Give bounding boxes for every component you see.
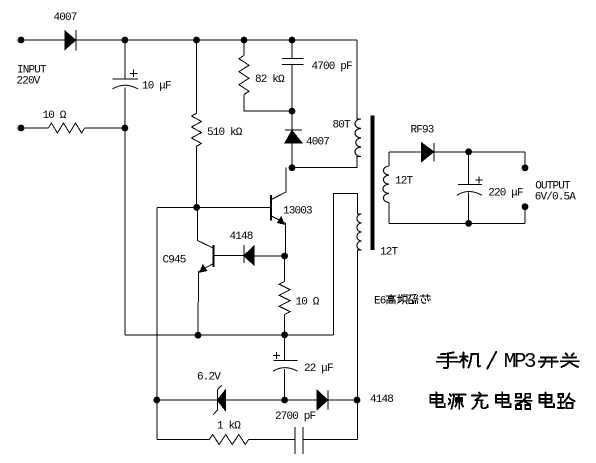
node 22uF bottom xyxy=(281,397,288,404)
svg-text:220V: 220V xyxy=(17,76,41,88)
wire 10uF branch upper xyxy=(124,40,126,79)
capacitor 4700pF xyxy=(291,40,293,59)
transformer core xyxy=(371,116,375,251)
capacitor C 10uF plates xyxy=(112,78,138,80)
node input bottom terminal xyxy=(18,125,25,132)
svg-text:RF93: RF93 xyxy=(411,125,434,137)
wire horizontal lower-left rail y=335 xyxy=(125,334,334,336)
diode 4007 (vertical) xyxy=(285,129,302,131)
text CJK lu xyxy=(558,394,575,409)
text CJK yuan xyxy=(449,394,466,409)
zener diode 6.2V xyxy=(213,385,221,414)
text CJK ci_small xyxy=(409,295,419,304)
Chinese title and labels drawn as strokes xyxy=(386,294,578,409)
wire bottom loop xyxy=(157,439,209,441)
svg-text:10 Ω: 10 Ω xyxy=(296,297,320,309)
text CJK chong xyxy=(472,393,488,409)
svg-text:6V/0.5A: 6V/0.5A xyxy=(535,191,577,203)
capacitor 22uF xyxy=(284,335,286,361)
svg-text:4007: 4007 xyxy=(54,12,77,24)
node emitter-4148 xyxy=(281,253,288,260)
resistor 510k xyxy=(196,40,198,113)
node C945 emitter rail xyxy=(195,332,202,339)
svg-text:10 Ω: 10 Ω xyxy=(43,110,67,122)
node collector-primary xyxy=(289,164,296,171)
wire right drop to primary xyxy=(357,40,361,119)
node 82k-4700pF xyxy=(289,108,296,115)
text CJK gao_small xyxy=(386,294,396,304)
text CJK xin_small xyxy=(420,295,430,304)
svg-text:C945: C945 xyxy=(163,255,186,267)
svg-text:4148: 4148 xyxy=(370,394,393,406)
text CJK kai xyxy=(539,357,558,367)
node rail-510k xyxy=(193,37,200,44)
node 220uF top xyxy=(465,148,472,155)
node rail-82k xyxy=(241,37,248,44)
node rail-10uF xyxy=(122,37,129,44)
svg-text:220 μF: 220 μF xyxy=(488,188,523,200)
svg-text:1 kΩ: 1 kΩ xyxy=(217,421,241,433)
svg-text:MP3: MP3 xyxy=(504,351,536,374)
svg-text:22 μF: 22 μF xyxy=(304,363,333,375)
node input top terminal xyxy=(18,37,25,44)
diode 4148 (middle) xyxy=(214,255,244,257)
transistor C945 xyxy=(213,245,215,267)
svg-text:4007: 4007 xyxy=(306,137,329,149)
resistor 82k xyxy=(243,40,245,55)
wire top rail left xyxy=(21,39,65,41)
text CJK dian xyxy=(430,393,445,407)
wire left branch B vertical xyxy=(156,207,158,439)
node rail-4700pF xyxy=(289,37,296,44)
wire top rail right of diode xyxy=(76,39,357,41)
capacitor 2700pF xyxy=(295,427,303,454)
svg-text:12T: 12T xyxy=(380,247,399,259)
text CJK qi xyxy=(515,394,531,409)
wire base 13003 xyxy=(157,206,271,208)
text CJK shou xyxy=(437,352,458,368)
transistor 13003 xyxy=(270,195,272,221)
wire primary bottom to node xyxy=(292,157,361,168)
slash separator xyxy=(487,352,496,369)
transformer feedback 12T coil xyxy=(357,214,362,250)
svg-text:82 kΩ: 82 kΩ xyxy=(255,74,285,86)
svg-text:6.2V: 6.2V xyxy=(197,372,221,384)
svg-text:2700 pF: 2700 pF xyxy=(275,411,316,423)
svg-text:12T: 12T xyxy=(395,176,414,188)
node base-510k xyxy=(193,204,200,211)
label MP3 (latin part of title) xyxy=(374,296,536,374)
node output+ terminal xyxy=(522,164,529,171)
diode RF93 xyxy=(422,143,434,162)
svg-text:4700 pF: 4700 pF xyxy=(312,61,353,73)
resistor 10 ohm (input) xyxy=(21,127,48,129)
output right verticals xyxy=(524,152,526,168)
output bottom wire xyxy=(389,222,525,224)
wire feedback top xyxy=(333,193,361,334)
text CJK ji xyxy=(460,353,480,368)
resistor 1k xyxy=(209,435,248,445)
node 4148-feedback xyxy=(354,397,361,404)
wire right vertical feedback bottom xyxy=(358,250,362,440)
wire zener rail y=400 xyxy=(157,399,217,401)
svg-text:E6: E6 xyxy=(374,296,386,308)
node zener left xyxy=(153,397,160,404)
svg-text:13003: 13003 xyxy=(283,206,312,218)
output: secondary 12T coil xyxy=(388,152,390,166)
text CJK pin_small xyxy=(397,295,407,304)
svg-text:80T: 80T xyxy=(333,120,352,132)
diode 4007 (top left) xyxy=(65,31,76,49)
node 10ohm-10uF xyxy=(122,125,129,132)
node 220uF bottom xyxy=(465,220,472,227)
node 22uF top xyxy=(281,331,288,338)
svg-text:10 μF: 10 μF xyxy=(142,81,171,93)
node output- terminal xyxy=(522,203,529,210)
capacitor 220uF xyxy=(468,152,470,185)
text CJK dian_3 xyxy=(539,393,554,407)
svg-text:4148: 4148 xyxy=(230,231,253,243)
resistor 10 ohm (emitter) xyxy=(284,256,286,282)
text CJK dian_2 xyxy=(496,393,511,407)
svg-text:510 kΩ: 510 kΩ xyxy=(207,127,243,139)
diode 4148 (bottom) xyxy=(317,390,328,409)
output top wire xyxy=(389,151,422,153)
wire 10uF bottom xyxy=(124,88,126,335)
transformer primary 80T coil xyxy=(355,119,361,157)
text CJK guan xyxy=(561,353,579,367)
